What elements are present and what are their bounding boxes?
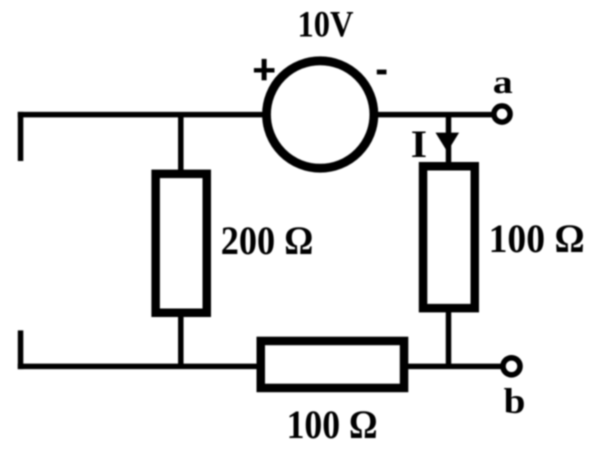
svg-text:100 Ω: 100 Ω (489, 216, 585, 261)
terminal a (open circle) (494, 106, 510, 122)
resistor 100 ohm right (423, 166, 475, 308)
wire 200 ohm resistor bottom to bottom rail (178, 312, 184, 369)
wire source to terminal a (374, 112, 496, 118)
svg-text:200 Ω: 200 Ω (221, 218, 313, 263)
plus polarity mark (254, 59, 275, 80)
wire top-left stub (open end) (18, 112, 24, 161)
wire bottom-left stub (open end) (18, 330, 24, 369)
svg-text:100 Ω: 100 Ω (287, 402, 378, 447)
resistor 200 ohm (156, 174, 207, 313)
resistor 100 ohm bottom (261, 341, 404, 388)
wire junction down to 200 ohm resistor (178, 115, 184, 172)
minus polarity mark (377, 70, 387, 75)
wire terminal a branch down to 100 ohm resistor (446, 115, 452, 164)
svg-text:I: I (411, 122, 427, 166)
wire 100 ohm resistor bottom to bottom rail (446, 310, 452, 369)
svg-text:a: a (493, 65, 513, 101)
current arrow I (arrowhead) (436, 133, 460, 152)
wire top horizontal (left rail to source) (18, 112, 266, 118)
voltage source V1 circle (267, 61, 374, 168)
svg-text:b: b (504, 381, 526, 421)
svg-text:10V: 10V (298, 5, 354, 46)
terminal b (open circle) (503, 358, 520, 375)
wire bottom horizontal rail (18, 364, 503, 370)
